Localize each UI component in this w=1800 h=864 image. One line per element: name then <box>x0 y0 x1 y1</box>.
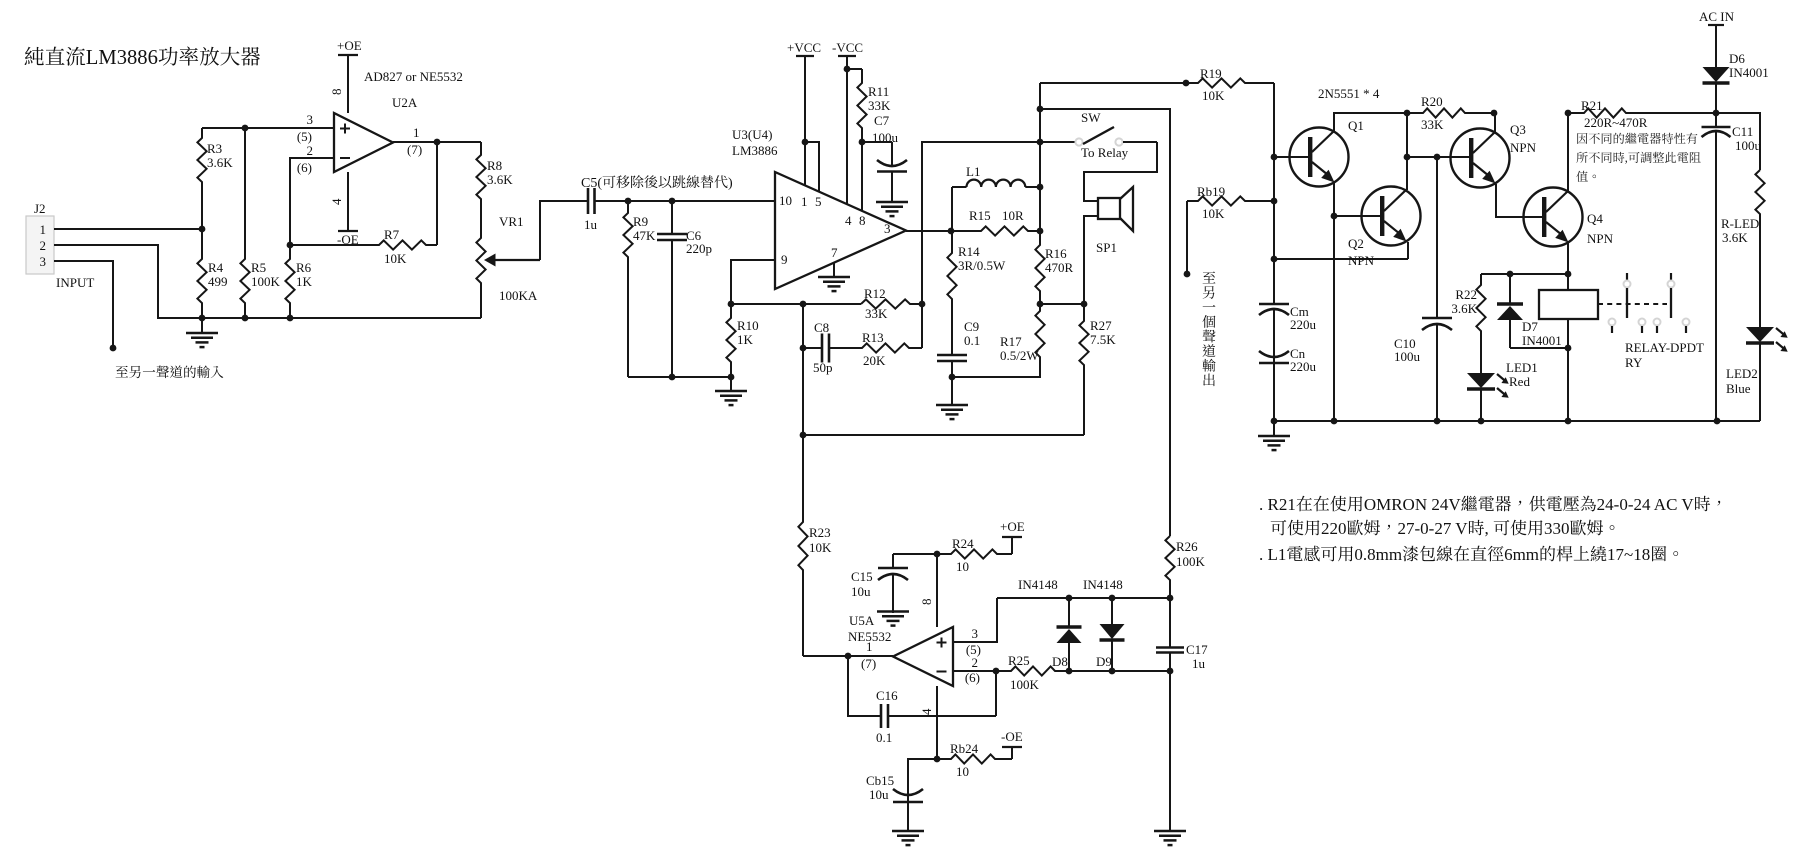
wire feedback riser <box>922 142 1040 348</box>
node R11 bottom / pin8 <box>859 139 866 146</box>
svg-text:R16: R16 <box>1045 246 1067 261</box>
svg-text:33K: 33K <box>868 98 891 113</box>
svg-text:C11: C11 <box>1732 124 1753 139</box>
capacitor C15 <box>892 554 894 568</box>
node R9 top <box>625 198 632 205</box>
capacitor C7 <box>891 142 893 165</box>
svg-text:IN4148: IN4148 <box>1083 577 1123 592</box>
resistor R19 <box>1040 78 1274 87</box>
svg-text:50p: 50p <box>813 360 833 375</box>
svg-text:D8: D8 <box>1052 654 1068 669</box>
svg-text:IN4148: IN4148 <box>1018 577 1058 592</box>
node R21 left <box>1565 110 1572 117</box>
svg-text:R19: R19 <box>1200 66 1222 81</box>
resistor R24 <box>937 549 1012 558</box>
svg-text:R27: R27 <box>1090 318 1112 333</box>
svg-text:R25: R25 <box>1008 653 1030 668</box>
svg-text:NPN: NPN <box>1587 231 1614 246</box>
svg-text:4: 4 <box>329 198 344 205</box>
svg-text:0.1: 0.1 <box>964 333 980 348</box>
node -VCC / R11 jog <box>844 66 851 73</box>
svg-text:R8: R8 <box>487 158 502 173</box>
resistor R8 <box>476 142 485 232</box>
node R10 top / feedback <box>728 301 735 308</box>
svg-text:. R21: . R21 <box>1259 495 1296 514</box>
svg-text:2: 2 <box>972 655 979 670</box>
svg-text:Blue: Blue <box>1726 381 1751 396</box>
svg-text:33K: 33K <box>865 306 888 321</box>
svg-text:R20: R20 <box>1421 94 1443 109</box>
svg-text:LED1: LED1 <box>1506 360 1538 375</box>
label R21 note line1 <box>1577 133 1697 144</box>
wire LM3886 pin9 <box>731 260 775 304</box>
svg-text:7: 7 <box>831 245 838 260</box>
svg-text:5: 5 <box>815 194 822 209</box>
svg-text:(6): (6) <box>297 160 312 175</box>
svg-text:SP1: SP1 <box>1096 240 1117 255</box>
resistor R20 <box>1407 108 1494 117</box>
wire Q3 emitter to Q4 base <box>1496 184 1543 217</box>
svg-text:-OE: -OE <box>1001 729 1023 744</box>
node R19 left <box>1183 80 1190 87</box>
node bus C11 <box>1714 418 1721 425</box>
svg-text:R13: R13 <box>862 330 884 345</box>
output rail <box>1039 83 1041 231</box>
svg-text:100K: 100K <box>251 274 281 289</box>
wire Q1 base <box>1274 156 1309 158</box>
node C9 bottom <box>949 374 956 381</box>
svg-text:3: 3 <box>40 254 47 269</box>
node Rb19 right <box>1271 198 1278 205</box>
wire SW to speaker <box>1084 142 1157 201</box>
node bus relay <box>1565 418 1572 425</box>
svg-text:R26: R26 <box>1176 539 1198 554</box>
svg-text:R7: R7 <box>384 227 400 242</box>
svg-text:27-0-27 V: 27-0-27 V <box>1398 519 1469 538</box>
ground under Cb15 <box>892 830 924 833</box>
svg-text:,: , <box>1485 519 1494 538</box>
svg-text:C15: C15 <box>851 569 873 584</box>
svg-text:AC IN: AC IN <box>1699 9 1735 24</box>
node R12 right <box>919 301 926 308</box>
node Q2 base junction <box>1331 213 1338 220</box>
wire R7 to output <box>436 142 438 245</box>
transistor Q1 <box>1290 128 1349 187</box>
svg-text:0.5/2W: 0.5/2W <box>1000 348 1039 363</box>
wire C16 to inverting input <box>995 671 997 716</box>
svg-text:2: 2 <box>40 238 47 253</box>
wire diode bottom line <box>1069 670 1170 672</box>
svg-text:(5): (5) <box>297 129 312 144</box>
wire to R-LED branch <box>1716 113 1760 170</box>
label 至另一個聲道輸出 vertical <box>1203 271 1216 283</box>
wire Q3 collector <box>1494 113 1496 132</box>
svg-text:10K: 10K <box>384 251 407 266</box>
svg-text:17~18: 17~18 <box>1607 545 1650 564</box>
wire Q1 emitter chain <box>1333 183 1335 421</box>
svg-text:R9: R9 <box>633 214 648 229</box>
resistor R21 <box>1568 108 1716 117</box>
svg-text:C7: C7 <box>874 113 890 128</box>
resistor R11 <box>847 69 867 142</box>
svg-text:499: 499 <box>208 274 228 289</box>
svg-text:220u: 220u <box>1290 359 1317 374</box>
diode D8 IN4148 <box>1068 598 1070 627</box>
node Q2 collector / base line <box>1404 154 1411 161</box>
node D8 bottom <box>1066 668 1073 675</box>
resistor R4 <box>197 229 206 318</box>
U5A pin4 line <box>936 686 938 759</box>
svg-text:47K: 47K <box>633 228 656 243</box>
ground under R10 <box>730 377 732 391</box>
svg-text:R-LED: R-LED <box>1721 216 1759 231</box>
node rail/R26 line <box>1037 106 1044 113</box>
svg-text:Rb24: Rb24 <box>950 741 979 756</box>
node R4 bottom <box>199 315 206 322</box>
wire Q2 emitter line <box>1274 258 1408 260</box>
wire C15 top <box>893 553 937 555</box>
svg-text:R14: R14 <box>958 244 980 259</box>
svg-text:C5(: C5( <box>581 176 602 191</box>
wire rail to R26 branch <box>1040 109 1170 536</box>
svg-text:9: 9 <box>781 252 788 267</box>
svg-text:33K: 33K <box>1421 117 1444 132</box>
resistor R16 <box>1035 231 1044 304</box>
svg-text:Cb15: Cb15 <box>866 773 894 788</box>
speaker SP1 <box>1098 187 1133 231</box>
svg-text:2: 2 <box>307 143 314 158</box>
svg-text:10u: 10u <box>869 787 889 802</box>
wire C8 branch <box>802 304 804 435</box>
svg-text:R15: R15 <box>969 208 991 223</box>
relay DPDT contacts <box>1598 273 1690 333</box>
svg-text:0.1: 0.1 <box>876 730 892 745</box>
svg-text:R11: R11 <box>868 84 889 99</box>
svg-text:Red: Red <box>1509 374 1530 389</box>
wire J2 pin1 to node <box>54 228 202 230</box>
wire R19 down to Q1 base <box>1273 83 1275 157</box>
op-amp U5A <box>893 627 953 686</box>
capacitor C10 <box>1436 317 1438 319</box>
LED LED2 Blue <box>1759 326 1761 328</box>
svg-text:+OE: +OE <box>1000 519 1025 534</box>
wire speaker return <box>1084 216 1098 304</box>
ground under C7 <box>876 201 908 204</box>
svg-text:Q4: Q4 <box>1587 211 1603 226</box>
capacitor Cm <box>1273 303 1275 305</box>
svg-text:NPN: NPN <box>1348 253 1375 268</box>
svg-text:220p: 220p <box>686 241 712 256</box>
wire U5A + input <box>953 598 997 642</box>
svg-text:LM3886: LM3886 <box>732 143 778 158</box>
node Q3 collector <box>1491 110 1498 117</box>
wire U2A inverting input <box>290 158 334 245</box>
label R21 note line2 <box>1576 152 1624 163</box>
node bus LED1 <box>1478 418 1485 425</box>
svg-text:IN4001: IN4001 <box>1522 333 1562 348</box>
node R23 top <box>800 432 807 439</box>
resistor Rb19 <box>1187 196 1274 205</box>
wire Rb19 stub <box>1186 201 1188 274</box>
resistor R26 <box>1165 536 1174 598</box>
svg-text:1K: 1K <box>737 332 754 347</box>
node D8 top <box>1066 595 1073 602</box>
svg-text:LM3886: LM3886 <box>86 47 158 69</box>
svg-text:R21: R21 <box>1581 98 1603 113</box>
wire pin8 <box>861 142 863 211</box>
wire C9 to R17 bottom <box>952 359 1040 377</box>
svg-text:3R/0.5W: 3R/0.5W <box>958 258 1006 273</box>
svg-text:10u: 10u <box>851 584 871 599</box>
svg-text:100K: 100K <box>1176 554 1206 569</box>
svg-text:Rb19: Rb19 <box>1197 184 1225 199</box>
svg-text:3.6K: 3.6K <box>207 155 233 170</box>
svg-text:7.5K: 7.5K <box>1090 332 1116 347</box>
capacitor C9 <box>951 353 953 355</box>
wire bus to R27 <box>803 434 1084 436</box>
node R3/R4 junction <box>199 226 206 233</box>
op-amp U3(U4) LM3886 <box>775 172 906 289</box>
node C10 branch <box>1434 154 1441 161</box>
wire Q2 collector <box>1406 113 1408 190</box>
diode D9 IN4148 <box>1111 598 1113 624</box>
VR1 wiper arrow <box>493 259 540 261</box>
node bus C10 <box>1434 418 1441 425</box>
ground under C15 <box>877 610 909 613</box>
node R5 bottom <box>242 315 249 322</box>
capacitor C5 <box>582 200 588 202</box>
node pin8/R24/C15 <box>934 551 941 558</box>
svg-text:RELAY-DPDT: RELAY-DPDT <box>1625 340 1704 355</box>
svg-text:1u: 1u <box>584 217 598 232</box>
node U5A output junction <box>845 653 852 660</box>
node relay coil bottom <box>1565 345 1572 352</box>
ground under R4 <box>201 318 203 333</box>
wire U2A output <box>393 141 481 143</box>
label R21 note line3 <box>1576 171 1596 182</box>
capacitor Cb15 <box>907 794 909 831</box>
transistor Q3 <box>1451 129 1510 188</box>
node R15/R16 junction <box>1037 228 1044 235</box>
svg-text:R24: R24 <box>952 536 974 551</box>
node D6 bottom / R21 right <box>1713 110 1720 117</box>
svg-text:3: 3 <box>307 112 314 127</box>
svg-text:3: 3 <box>972 626 979 641</box>
svg-text:INPUT: INPUT <box>56 275 94 290</box>
svg-text:10K: 10K <box>1202 206 1225 221</box>
node R20 left <box>1404 110 1411 117</box>
capacitor C11 <box>1715 113 1717 127</box>
wire to R27 <box>1040 303 1084 305</box>
svg-text:100u: 100u <box>1735 138 1762 153</box>
wire LM3886 output <box>906 230 951 232</box>
svg-text:U5A: U5A <box>849 613 875 628</box>
svg-text:8: 8 <box>859 213 866 228</box>
node C17 top line <box>1167 668 1174 675</box>
svg-text:AD827 or NE5532: AD827 or NE5532 <box>364 69 463 84</box>
wire Q2 base <box>1334 215 1381 217</box>
svg-text:D7: D7 <box>1522 319 1538 334</box>
svg-text:100KA: 100KA <box>499 288 538 303</box>
wire C16 loop <box>848 656 875 716</box>
svg-text:6mm: 6mm <box>1504 545 1539 564</box>
svg-text:1u: 1u <box>1192 656 1206 671</box>
node R25 left <box>993 668 1000 675</box>
ground under bus <box>1273 421 1275 436</box>
svg-text:,: , <box>1625 151 1628 165</box>
resistor Rb24 <box>937 754 1012 763</box>
resistor R13 <box>832 343 922 352</box>
svg-text:3.6K: 3.6K <box>1451 301 1477 316</box>
wire D7 bottom to relay line <box>1510 347 1568 349</box>
rail Cm/Cn <box>1273 157 1275 304</box>
svg-text:D9: D9 <box>1096 654 1112 669</box>
svg-text:D6: D6 <box>1729 51 1745 66</box>
diode D6 IN4001 <box>1715 25 1717 67</box>
svg-text:R17: R17 <box>1000 334 1022 349</box>
svg-text:10K: 10K <box>1202 88 1225 103</box>
title 純直流LM3886功率放大器 <box>25 47 86 66</box>
resistor R25 <box>996 666 1069 675</box>
svg-text:SW: SW <box>1081 110 1101 125</box>
node Q1 base / rail <box>1271 154 1278 161</box>
svg-text:RY: RY <box>1625 355 1643 370</box>
svg-text:VR1: VR1 <box>499 214 524 229</box>
wire R23 to U5A output <box>803 655 848 657</box>
svg-text:R23: R23 <box>809 525 831 540</box>
wire C17 to ground <box>1169 671 1171 831</box>
node rail/SW line <box>1037 139 1044 146</box>
resistor R7 <box>290 240 437 249</box>
node U2A output junction <box>434 139 441 146</box>
wire U5A - input <box>953 670 996 672</box>
wire LED2 to bus corner <box>1717 420 1760 422</box>
resistor R10 <box>726 304 735 377</box>
wire +input rail <box>202 127 334 129</box>
node R10 bottom <box>728 374 735 381</box>
wire relay to bus <box>1567 348 1569 421</box>
wire Q1 collector <box>1334 113 1407 131</box>
node D9 top <box>1109 595 1116 602</box>
svg-text:100u: 100u <box>872 130 899 145</box>
svg-text:C17: C17 <box>1186 642 1208 657</box>
svg-text:1: 1 <box>866 639 873 654</box>
wire U5A output <box>848 655 893 657</box>
svg-text:3.6K: 3.6K <box>487 172 513 187</box>
capacitor C17 <box>1169 598 1171 648</box>
resistor R-LED <box>1755 170 1764 327</box>
resistor R9 <box>623 201 632 377</box>
svg-text:(7): (7) <box>407 142 422 157</box>
svg-text:R3: R3 <box>207 141 222 156</box>
svg-text:U2A: U2A <box>392 95 418 110</box>
wire pin5 jog <box>805 142 819 192</box>
resistor R15 <box>951 226 1040 235</box>
node D7 top <box>1507 271 1514 278</box>
relay coil RY <box>1539 274 1598 348</box>
svg-text:4: 4 <box>845 213 852 228</box>
svg-text:1: 1 <box>801 194 808 209</box>
svg-text:+VCC: +VCC <box>787 40 821 55</box>
node R5 top <box>242 125 249 132</box>
wire R22 top line <box>1481 273 1568 275</box>
node Q4 emitter / R22 line <box>1565 271 1572 278</box>
svg-text:C16: C16 <box>876 688 898 703</box>
svg-text:+OE: +OE <box>337 38 362 53</box>
svg-text:10: 10 <box>956 559 969 574</box>
svg-text:LED2: LED2 <box>1726 366 1758 381</box>
node C8 line junction <box>800 345 807 352</box>
svg-text:8: 8 <box>329 89 344 96</box>
svg-text:R10: R10 <box>737 318 759 333</box>
wire Q2 emitter <box>1407 242 1409 259</box>
node C6 top <box>669 198 676 205</box>
svg-text:100K: 100K <box>1010 677 1040 692</box>
diode D7 IN4001 <box>1509 274 1511 304</box>
resistor R27 <box>1079 304 1088 435</box>
node R26 bottom <box>1167 595 1174 602</box>
wire Cb15 top <box>908 759 937 790</box>
capacitor C6 <box>671 201 673 234</box>
ground under C9 <box>951 377 953 405</box>
wire Q3 base line <box>1407 156 1470 158</box>
svg-text:3: 3 <box>884 221 891 236</box>
svg-text:-VCC: -VCC <box>832 40 863 55</box>
op-amp U2A <box>334 113 393 172</box>
resistor R3 <box>197 128 206 229</box>
wire feedback top <box>731 303 861 305</box>
resistor R23 <box>798 435 807 656</box>
svg-text:1: 1 <box>413 125 420 140</box>
wire R11 to C7 <box>862 141 892 143</box>
svg-text:3.6K: 3.6K <box>1722 230 1748 245</box>
capacitor C8 <box>803 347 822 349</box>
U5A pin8 riser <box>936 554 938 627</box>
wire Q4 collector <box>1567 113 1569 191</box>
svg-text:8: 8 <box>919 599 934 606</box>
node C6 bottom <box>669 374 676 381</box>
svg-text:R12: R12 <box>864 286 886 301</box>
transistor Q4 <box>1524 188 1583 247</box>
node pin1/pin5 jog <box>802 139 809 146</box>
svg-text:): ) <box>728 176 733 191</box>
node pin4/Rb24/Cb15 <box>934 756 941 763</box>
LM3886 pin7 ground stub <box>833 263 835 277</box>
wire input ground bus <box>628 376 731 378</box>
svg-text:Q1: Q1 <box>1348 118 1364 133</box>
node D9 bottom <box>1109 668 1116 675</box>
resistor R22 <box>1476 274 1485 373</box>
bottom bus right section <box>1274 420 1717 422</box>
node R16/R17 junction <box>1037 301 1044 308</box>
capacitor C16 <box>875 715 881 717</box>
-OE terminal <box>1011 747 1013 759</box>
connector J2 <box>26 216 54 274</box>
svg-text:100u: 100u <box>1394 349 1421 364</box>
node Q2 emitter line <box>1271 256 1278 263</box>
wire C5 to LM3886 pin10 <box>598 200 775 202</box>
capacitor Cn <box>1273 356 1275 421</box>
svg-text:4: 4 <box>919 708 934 715</box>
svg-text:20K: 20K <box>863 353 886 368</box>
node C8/R13 branch top <box>800 301 807 308</box>
svg-text:. L1: . L1 <box>1259 545 1286 564</box>
svg-text:1K: 1K <box>296 274 313 289</box>
svg-text:NPN: NPN <box>1510 140 1537 155</box>
wire diode top line <box>997 597 1170 599</box>
node R6 bottom <box>287 315 294 322</box>
svg-text:10: 10 <box>956 764 969 779</box>
